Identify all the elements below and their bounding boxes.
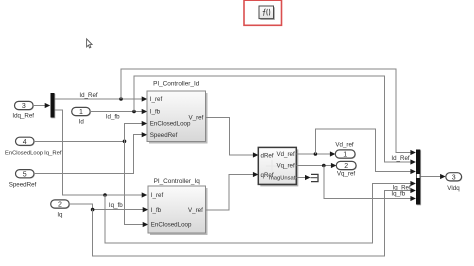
subsystem PI_Controller_Id shadow xyxy=(149,93,208,144)
wire Iq_Ref branch to mux input 4 xyxy=(105,181,416,243)
wire mux out to outport 3 xyxy=(420,174,445,179)
node J3 on EnClosedLoop xyxy=(123,140,127,144)
inport 5 SpeedRef xyxy=(9,170,37,189)
svg-text:PI_Controller_Iq: PI_Controller_Iq xyxy=(154,178,201,185)
wire V_ref Iq to limiter qRef xyxy=(206,172,259,210)
inport 2 Iq xyxy=(51,200,70,218)
svg-text:I_fb: I_fb xyxy=(151,207,162,214)
function block U_f shadow xyxy=(260,7,275,20)
svg-text:4: 4 xyxy=(23,139,27,146)
svg-text:1: 1 xyxy=(343,152,347,159)
svg-text:Vd_ref: Vd_ref xyxy=(276,151,295,158)
svg-text:Vq_ref: Vq_ref xyxy=(337,170,356,177)
wire Vd_ref branch to mux input 3 xyxy=(315,129,416,174)
svg-text:Id_Ref: Id_Ref xyxy=(391,155,410,162)
svg-text:EnClosedLoop: EnClosedLoop xyxy=(150,121,191,128)
inport 3 Idq_Ref xyxy=(12,101,34,119)
svg-text:Id_Ref: Id_Ref xyxy=(79,92,98,99)
wire Iq to I_fb of Iq controller xyxy=(69,202,148,212)
svg-text:2: 2 xyxy=(344,163,348,170)
subsystem PI_Controller_Iq xyxy=(148,178,206,233)
node J5 on Iq xyxy=(91,208,95,212)
svg-text:Vq_ref: Vq_ref xyxy=(276,162,295,169)
wire EnClosedLoop to Iq controller xyxy=(125,141,149,227)
svg-text:PI_Controller_Id: PI_Controller_Id xyxy=(153,80,200,87)
svg-text:SpeedRef: SpeedRef xyxy=(150,132,178,139)
wire V_ref Id to limiter dRef xyxy=(206,118,259,158)
wire Id_Ref branch to mux input 1 xyxy=(121,69,416,162)
svg-text:Id_fb: Id_fb xyxy=(106,114,120,121)
outport 2 Vq_ref xyxy=(336,161,357,177)
svg-text:I_ref: I_ref xyxy=(151,192,164,199)
inport 4 EnClosedLoop xyxy=(5,137,43,156)
mouse cursor xyxy=(87,39,93,48)
svg-text:Idq_Ref: Idq_Ref xyxy=(12,113,34,120)
svg-text:Iq_fb: Iq_fb xyxy=(391,191,405,198)
wire Iq_Ref (demux out2 to PI_Controller_Iq I_ref) xyxy=(44,110,147,198)
terminator T1 xyxy=(311,174,318,181)
svg-text:EnClosedLoop: EnClosedLoop xyxy=(151,222,192,229)
svg-text:1: 1 xyxy=(79,109,83,116)
subsystem PI_Controller_Id xyxy=(147,80,206,141)
node J1 on Id_Ref xyxy=(119,97,123,101)
function block U_f xyxy=(259,6,274,19)
demux xyxy=(51,93,56,118)
wire Vd_ref to outport 1 xyxy=(296,151,335,156)
wire SpeedRef to Id controller xyxy=(34,132,147,174)
wire magUnsat to terminator xyxy=(296,175,317,180)
node J2 on Id_fb xyxy=(132,110,136,114)
svg-text:Id: Id xyxy=(79,118,85,125)
svg-text:magUnsat: magUnsat xyxy=(269,176,296,182)
svg-text:3: 3 xyxy=(22,103,26,110)
block DQ_Limiter xyxy=(258,147,296,184)
svg-text:Iq_Ref: Iq_Ref xyxy=(44,150,62,156)
wire Vq_ref branch to mux input 6 xyxy=(324,166,416,202)
node J4 on Iq_Ref xyxy=(103,193,107,197)
svg-text:Iq: Iq xyxy=(57,211,63,218)
svg-text:dRef: dRef xyxy=(261,153,274,160)
function block f() selection box (red) xyxy=(244,0,282,25)
svg-text:SpeedRef: SpeedRef xyxy=(9,181,37,188)
svg-text:3: 3 xyxy=(452,174,456,181)
node J6 on Vd_ref xyxy=(314,152,318,156)
wire Id to I_fb xyxy=(90,109,147,121)
svg-text:2: 2 xyxy=(58,202,62,209)
svg-text:I_fb: I_fb xyxy=(150,109,161,116)
wire Id_fb branch to mux input 2 xyxy=(134,76,416,165)
svg-text:Vd_ref: Vd_ref xyxy=(335,141,354,148)
svg-text:Vldq: Vldq xyxy=(447,185,460,192)
svg-text:5: 5 xyxy=(23,171,27,178)
subsystem PI_Controller_Iq shadow xyxy=(150,188,208,235)
wire EnClosedLoop to Id controller xyxy=(125,121,148,141)
svg-text:V_ref: V_ref xyxy=(188,207,203,214)
outport 3 Vldq xyxy=(446,173,463,192)
svg-text:Iq_fb: Iq_fb xyxy=(109,202,123,209)
svg-text:V_ref: V_ref xyxy=(189,115,204,122)
wire Iq_fb branch to mux input 5 xyxy=(93,188,416,256)
svg-text:I_ref: I_ref xyxy=(150,96,163,103)
wire EnClosedLoop main xyxy=(34,140,125,142)
svg-text:EnClosedLoop: EnClosedLoop xyxy=(5,150,43,156)
inport 1 Id xyxy=(72,107,91,125)
block DQ_Limiter shadow xyxy=(260,149,298,186)
wire Vq_ref to outport 2 xyxy=(296,163,336,168)
node J7 on Vq_ref xyxy=(322,164,326,168)
wire Id_Ref (demux out1 to PI_Controller_Id I_ref) xyxy=(55,92,148,102)
outport 1 Vd_ref xyxy=(335,141,356,159)
wire Idq_Ref to demux xyxy=(33,103,50,108)
mux xyxy=(416,150,421,206)
